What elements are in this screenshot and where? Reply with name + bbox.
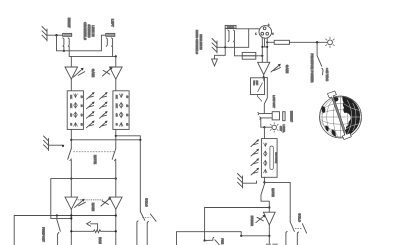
node pin1 tie	[261, 46, 263, 48]
switch PRE	[205, 237, 220, 245]
svg-text:LOW CUT: LOW CUT	[272, 95, 275, 108]
resistor pad upper	[242, 52, 256, 55]
wire pre fader bus	[205, 208, 270, 241]
svg-text:FADER: FADER	[250, 216, 254, 227]
svg-text:18dB: 18dB	[255, 80, 258, 85]
label LEVEL SET	[279, 125, 285, 134]
svg-text:SOLO: SOLO	[298, 213, 302, 222]
wire aux lower bus	[51, 217, 72, 219]
pot arrow main2	[101, 197, 111, 206]
label LINE IN STEREO CHANNELS	[83, 22, 95, 40]
wire gain1 input	[70, 56, 72, 67]
node mute NC post	[62, 145, 64, 147]
wire EQ1 tap to solo feed	[71, 139, 140, 141]
wire gain3 out	[263, 75, 265, 78]
jack J4 INSERT	[258, 112, 285, 121]
EQ block mono (mid sweep)	[261, 139, 277, 178]
ground chassis G1 (stereo input)	[42, 27, 47, 42]
node phantom switch tap	[316, 41, 318, 43]
EQ pot arrows row3	[87, 111, 108, 118]
switch SOLO1	[137, 212, 145, 245]
wire xlr pin3 leg	[266, 38, 268, 62]
EQ pot arrows row2	[87, 102, 108, 109]
wire lowcut out	[258, 95, 262, 102]
node pad join	[261, 55, 263, 57]
wire fader out	[268, 225, 270, 245]
wire tip bus stereo	[69, 46, 116, 56]
connector XLR mic	[259, 26, 272, 39]
switch SOLO4	[297, 224, 306, 245]
resistor PAN	[71, 230, 116, 233]
svg-text:PRE/POST: PRE/POST	[42, 227, 46, 242]
LED LEVEL SET	[270, 123, 278, 133]
label MIC/LINE IN MONO CHANNELS	[195, 30, 202, 54]
node phantom tap	[266, 41, 268, 43]
gang dashed mute	[74, 151, 115, 153]
jack J2 contacts	[106, 38, 112, 46]
node EQ1 out	[70, 139, 72, 141]
svg-text:GAIN: GAIN	[285, 65, 289, 74]
svg-text:MUTE: MUTE	[271, 188, 275, 197]
jack J3 mono line in	[225, 25, 236, 29]
switch PRE/POST	[57, 216, 60, 245]
wire ground G2 stub	[49, 144, 64, 146]
switch MUTE2	[112, 149, 116, 179]
node sleeve R	[63, 50, 65, 52]
wire xlr pin1 leg	[261, 38, 263, 62]
wire mid eq out	[263, 177, 265, 184]
svg-text:PAN: PAN	[98, 237, 102, 244]
node post bus corner	[240, 235, 242, 237]
node mono jack sleeve	[224, 46, 226, 48]
switch MUTE3	[261, 184, 269, 207]
op-amp GAIN2 (left ch)	[110, 67, 123, 79]
EQ block left channel	[113, 91, 129, 130]
node main1 bus	[70, 214, 72, 216]
svg-text:SOLO: SOLO	[145, 198, 149, 207]
wire main2 input	[115, 179, 117, 198]
op-amp GAIN1 (right ch)	[65, 67, 78, 79]
logo ribbon	[327, 91, 351, 140]
svg-text:INSERT: INSERT	[289, 111, 293, 122]
pot arrow main1	[75, 199, 86, 208]
EQ block right channel	[67, 91, 83, 130]
svg-text:2: 2	[268, 23, 270, 26]
pan wiper arrow	[87, 222, 98, 230]
svg-text:PHANTOM POWER: PHANTOM POWER	[310, 54, 314, 84]
wire pin tie	[262, 46, 267, 48]
op-amp MAIN1	[65, 197, 78, 209]
wire jack sleeve drop	[224, 29, 226, 56]
node mute2 out	[115, 178, 117, 180]
svg-text:MID FREQ: MID FREQ	[275, 152, 278, 163]
wire to signal gnd triangle	[215, 55, 226, 59]
wire gain2 input	[115, 56, 117, 67]
low cut filter box	[251, 78, 265, 95]
ground chassis G2 (stereo mute)	[44, 136, 49, 151]
wire ground G1 to right jack	[47, 34, 63, 36]
node at (56.5,35.2)	[55, 34, 57, 36]
node level set	[263, 126, 265, 128]
node main2 bus	[115, 214, 117, 216]
svg-text:MUTE: MUTE	[93, 155, 97, 164]
wire aux mono bus	[177, 232, 242, 245]
pot arrow gain3	[271, 64, 281, 72]
wire main1 input	[70, 179, 72, 198]
clipped label bottom	[266, 244, 278, 245]
node aux join main1	[70, 217, 72, 219]
node fader input	[268, 206, 270, 208]
wire line to xlr	[236, 28, 260, 30]
lamp +48 indicator	[326, 37, 335, 48]
logo globe	[320, 91, 362, 140]
svg-text:3: 3	[272, 33, 274, 36]
wire sleeve R to bus	[63, 46, 65, 51]
gang dashed solo stereo	[143, 216, 151, 218]
wire EQ1 out	[70, 129, 72, 148]
jack J1 contacts	[63, 38, 69, 46]
gang dashed solo mono	[295, 228, 302, 230]
wire phantom feed	[267, 41, 274, 43]
ground chassis G3 (mono input)	[212, 39, 217, 54]
svg-text:1: 1	[255, 33, 257, 36]
switch SOLO2	[147, 214, 156, 245]
node mid eq out	[263, 181, 265, 183]
svg-text:MONO CHANNELS: MONO CHANNELS	[195, 30, 198, 54]
wire fader input drop	[268, 208, 270, 213]
pot arrow fader	[256, 215, 266, 223]
wire EQ2 tap to solo feed	[116, 136, 141, 212]
node EQ2 out	[115, 135, 117, 137]
pot arrow gain2	[103, 67, 113, 76]
wire mono ground bus	[217, 29, 249, 48]
node pan R	[115, 230, 117, 232]
op-amp FADER	[263, 212, 275, 225]
svg-text:MIC/LINE IN: MIC/LINE IN	[199, 34, 202, 49]
wire EQ2 out	[115, 129, 117, 148]
gang dotted main	[78, 199, 103, 201]
svg-text:RIGHT: RIGHT	[67, 18, 71, 28]
EQ pot arrows row1	[87, 92, 108, 99]
svg-text:GAIN: GAIN	[91, 69, 95, 78]
node fader out	[268, 235, 270, 237]
resistor phantom	[274, 40, 289, 44]
wire tip L jack drop	[112, 46, 114, 56]
switch PHANTOM POWER	[317, 42, 323, 75]
jack J3 contacts	[228, 30, 235, 42]
switch SOLO3	[286, 222, 295, 245]
node pan L	[70, 230, 72, 232]
svg-text:2.5K: 2.5K	[115, 104, 118, 109]
wire solo feed mono	[264, 182, 290, 222]
jack J2 LEFT (line in L)	[106, 33, 115, 36]
op-amp GAIN3 (mono)	[258, 62, 270, 74]
wire aux tap bus	[51, 179, 116, 219]
wire post bus	[241, 235, 269, 237]
node pre switch	[204, 239, 206, 241]
svg-text:PRE: PRE	[221, 238, 225, 244]
wire lowcut bypass	[264, 77, 268, 113]
node pin3 tie	[266, 46, 268, 48]
wire gain1 out to EQ1	[70, 79, 72, 91]
pot arrow gain1	[74, 68, 85, 77]
jack J1 RIGHT (line in R)	[63, 33, 72, 36]
EQ pot arrows row4	[87, 121, 108, 128]
ground chassis G4 (mono mute)	[238, 174, 243, 189]
mid eq pot arrows	[251, 139, 259, 175]
node lowcut split	[263, 76, 265, 78]
wire insert return down	[261, 118, 265, 127]
node tip bus left	[115, 55, 117, 57]
svg-text:LINE IN: LINE IN	[227, 26, 235, 29]
wire jack tip to pad	[235, 42, 243, 56]
wire ground G4 stub	[243, 181, 257, 183]
switch MUTE1	[68, 149, 72, 179]
wire to mid eq	[263, 127, 265, 138]
resistor pad lower	[242, 56, 256, 59]
svg-text:MAIN: MAIN	[91, 203, 95, 212]
node mute1 out	[70, 178, 72, 180]
wire main2 out	[115, 209, 117, 245]
node solo feed join	[139, 139, 141, 141]
wire phantom to lamp	[290, 41, 327, 43]
svg-text:CHANNELS: CHANNELS	[83, 22, 87, 40]
svg-text:LEFT: LEFT	[111, 19, 115, 27]
wire to level LED	[264, 126, 271, 128]
wire control room bus	[14, 216, 116, 245]
wire gain2 out to EQ2	[115, 79, 117, 91]
svg-text:+48 VDC: +48 VDC	[325, 68, 329, 82]
wire pad to xlr leg	[256, 55, 262, 57]
ground triangle (signal)	[212, 59, 218, 66]
node prepost tap	[56, 214, 58, 216]
wire main1 out	[70, 209, 72, 245]
op-amp MAIN2	[110, 197, 123, 209]
wire xlr pin2 leg	[264, 38, 266, 47]
svg-text:2.5K: 2.5K	[69, 104, 72, 109]
svg-text:SET: SET	[279, 126, 282, 131]
wire ground bus stereo	[57, 35, 106, 51]
